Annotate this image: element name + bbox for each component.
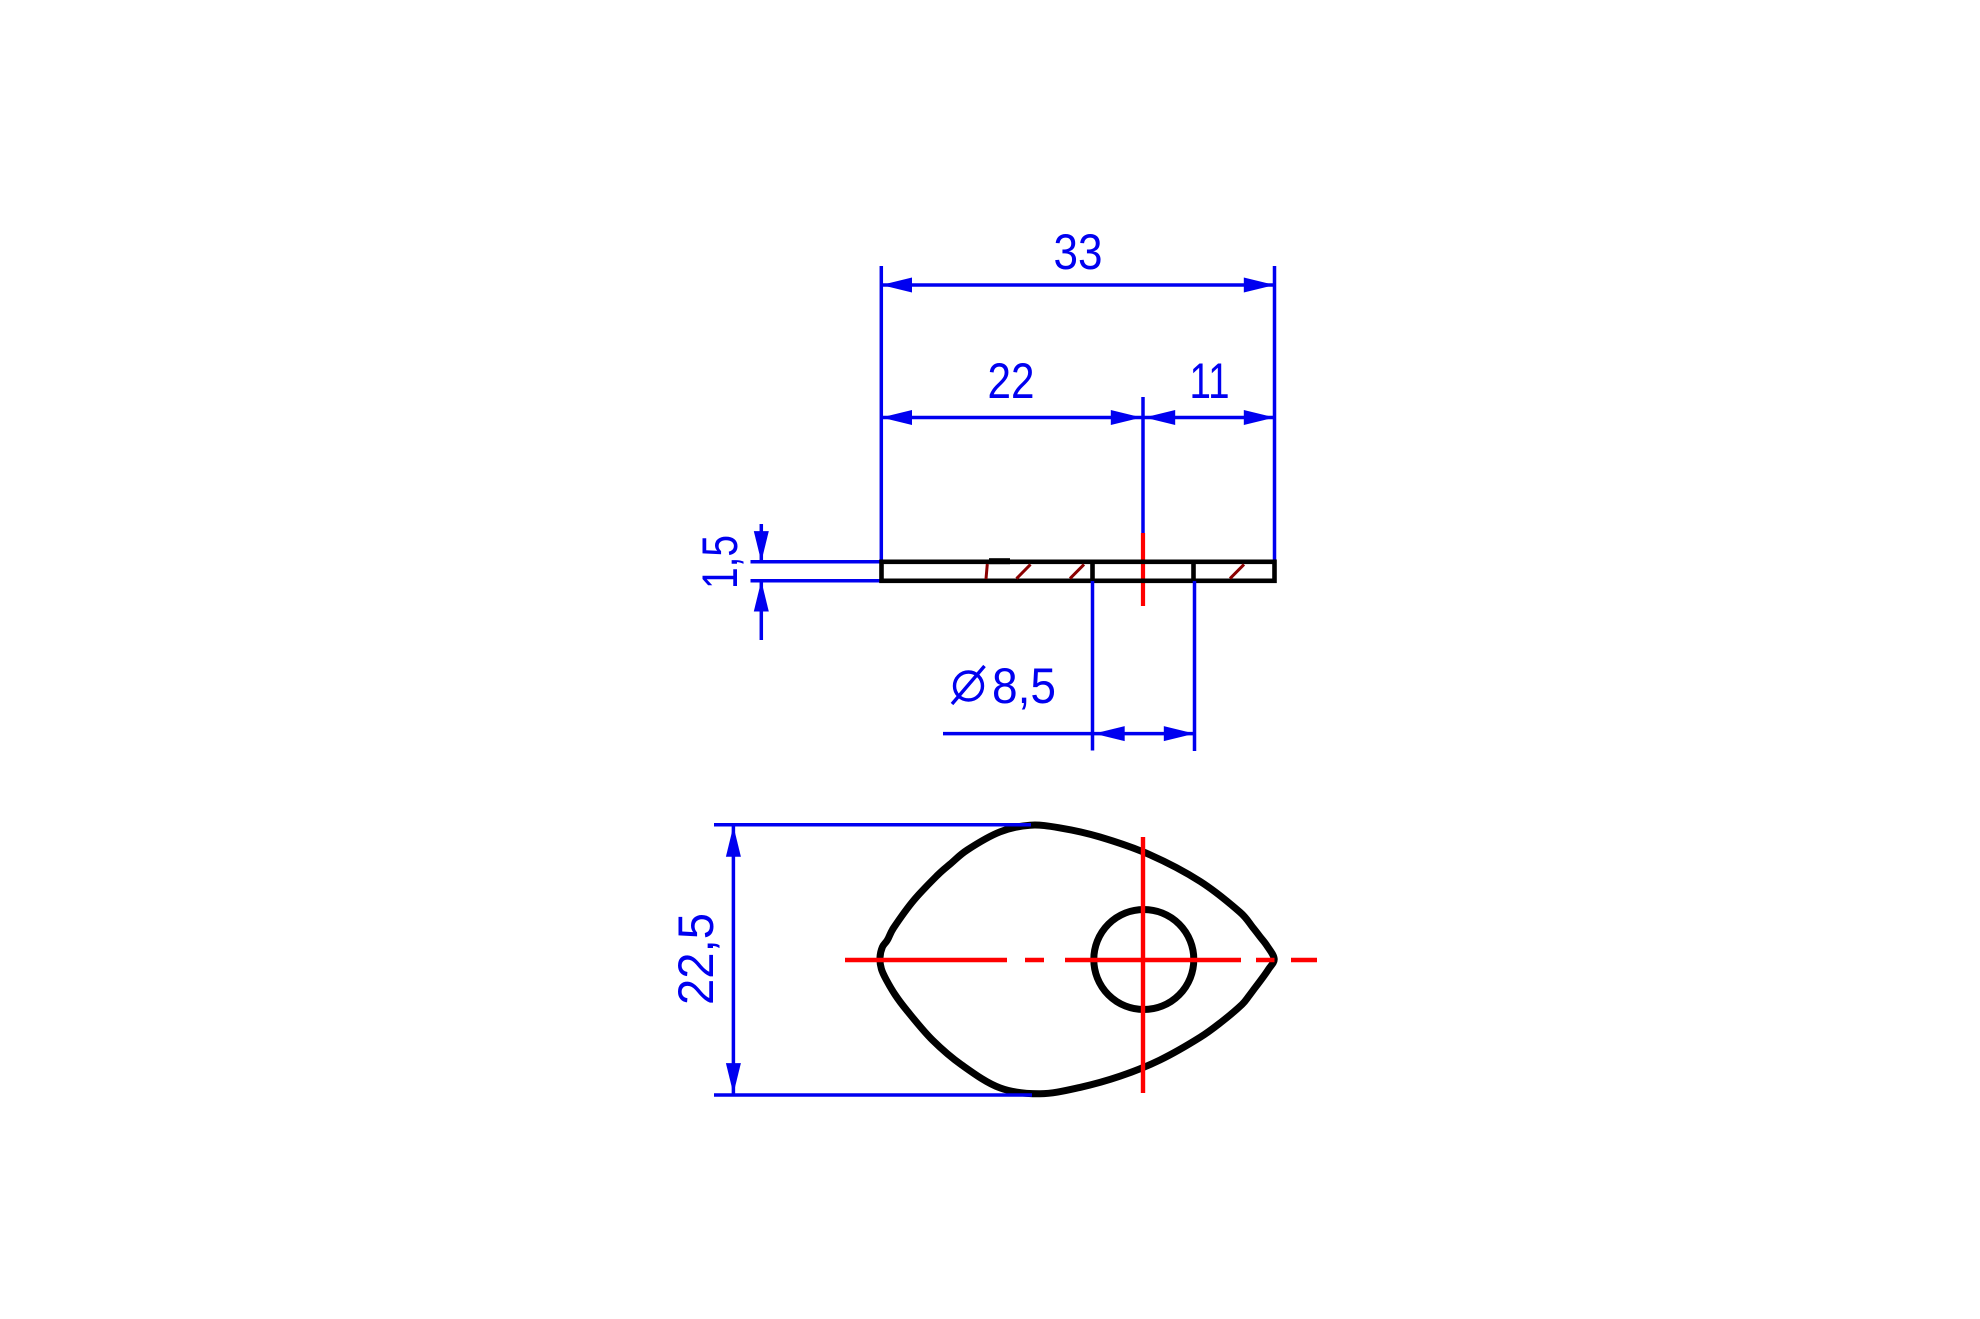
dim 8,5: left extension line <box>1091 581 1095 751</box>
dim 33: right arrowhead <box>1244 278 1275 293</box>
svg-text:22,5: 22,5 <box>668 913 724 1005</box>
section plate outline <box>882 562 1275 581</box>
dim 22,5: top extension line <box>714 823 1031 827</box>
section: thick seam segment on top edge <box>989 558 1010 564</box>
section: hole right edge line <box>1191 562 1196 581</box>
dim 11: right arrowhead <box>1244 410 1275 425</box>
dim 22,5: dimension line <box>732 825 736 1095</box>
hatch stroke 1 <box>1017 564 1031 578</box>
part outline (eye/teardrop shape) <box>880 825 1274 1094</box>
dim 1,5: lower arrow line <box>760 581 764 640</box>
dim 1,5: upper arrowhead <box>754 531 769 562</box>
dim 8,5: right arrowhead <box>1164 726 1195 741</box>
dim 8,5: right extension line <box>1193 581 1197 751</box>
dim 8,5: diameter symbol slash <box>952 666 985 704</box>
dim 22,5: bottom arrowhead <box>726 1063 741 1094</box>
dim 33: dimension line <box>881 283 1274 287</box>
vertical centreline (red) <box>1141 837 1145 1093</box>
dim 22,5: top arrowhead <box>726 826 741 857</box>
dim 22: left arrowhead <box>881 410 912 425</box>
svg-text:1,5: 1,5 <box>692 535 748 589</box>
dim 1,5: lower arrowhead <box>754 581 769 612</box>
dim 33: left extension line <box>880 266 884 583</box>
dim 11: dimension line <box>1145 416 1275 420</box>
dim 22: dimension line <box>881 416 1141 420</box>
hatch stroke 3 <box>1230 564 1244 578</box>
hole centreline (red, through section) <box>1141 533 1145 606</box>
svg-text:33: 33 <box>1054 224 1103 280</box>
dim 33: right extension line <box>1273 266 1277 564</box>
hatch boundary line (dark red, vertical) <box>986 564 987 579</box>
dim 1,5: top extension line <box>751 560 883 564</box>
hole centre extension line (blue, above section) <box>1141 397 1145 533</box>
hole circle <box>1094 910 1194 1010</box>
dim 22: right arrowhead <box>1111 410 1142 425</box>
dim 11: left arrowhead <box>1145 410 1176 425</box>
svg-text:11: 11 <box>1190 353 1230 409</box>
dim 1,5: upper arrow line <box>760 524 764 562</box>
hatch stroke 2 <box>1070 564 1084 578</box>
section: hole left edge line <box>1090 562 1095 581</box>
dim 8,5: dimension/leader line <box>943 732 1195 736</box>
dim 22,5: bottom extension line <box>714 1093 1032 1097</box>
svg-text:8,5: 8,5 <box>992 658 1056 714</box>
dim 33: left arrowhead <box>881 278 912 293</box>
dim 1,5: bottom extension line <box>751 579 884 583</box>
svg-text:22: 22 <box>988 353 1035 409</box>
dim 8,5: diameter symbol circle <box>955 672 983 700</box>
dim 8,5: left arrowhead <box>1094 726 1125 741</box>
horizontal centreline (red, dashed) <box>845 958 1317 962</box>
